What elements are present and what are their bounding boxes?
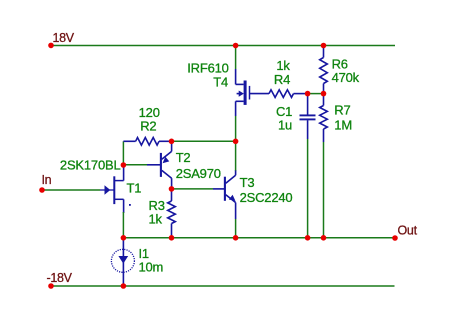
node T1 source/I1 (121, 235, 127, 241)
wire: T1 source down to out row (122, 212, 124, 238)
node R2/T2 emitter (169, 139, 175, 145)
svg-text:1u: 1u (278, 118, 292, 133)
node R7 bottom row (321, 235, 327, 241)
svg-text:-18V: -18V (47, 271, 73, 285)
svg-text:R4: R4 (274, 72, 290, 87)
svg-text:470k: 470k (332, 70, 360, 85)
node R4/C1 (305, 91, 311, 97)
wire: T4 source down to junction (235, 116, 237, 141)
resistor R2 (123, 138, 171, 146)
resistor R4 (269, 90, 308, 98)
svg-text:120: 120 (139, 105, 160, 120)
svg-text:T1: T1 (127, 181, 142, 196)
wire: T3 emitter to out row (235, 219, 237, 238)
stray mark (129, 204, 131, 206)
svg-text:Out: Out (398, 223, 418, 237)
svg-text:1k: 1k (149, 212, 163, 227)
top rail 18V (51, 45, 395, 47)
wire: R2 right to MOSFET source column (172, 140, 236, 142)
node T4 source/T3 collector (233, 139, 239, 145)
resistor R7 (320, 94, 328, 142)
node T3 emitter row (233, 235, 239, 241)
wire: C1 bottom to out row (307, 139, 309, 238)
bottom rail -18V (51, 285, 395, 287)
wire: R7 bottom to out row (323, 142, 325, 238)
node rail/R6 top (321, 43, 327, 49)
svg-text:T4: T4 (213, 75, 228, 90)
wire: junction to T3 collector (235, 141, 237, 170)
transistor T2 (PNP 2SA970) (147, 141, 172, 189)
svg-text:1M: 1M (334, 118, 352, 133)
node A T1 drain/R2/T2 base (121, 162, 127, 168)
wire: node A up to R2 left (122, 141, 124, 165)
wire: In to T1 gate (42, 189, 100, 191)
node In terminal (39, 187, 45, 193)
svg-text:IRF610: IRF610 (187, 60, 228, 75)
transistor T1 (JFET 2SK170BL) (100, 165, 124, 213)
svg-text:2SA970: 2SA970 (176, 166, 221, 181)
node I1 bottom (121, 283, 127, 289)
node T2 collector/R3/T3 base (169, 186, 175, 192)
resistor R6 (320, 46, 328, 94)
node rail/T4 drain (233, 43, 239, 49)
node Out terminal (392, 235, 398, 241)
transistor T4 (MOSFET IRF610) (236, 69, 269, 116)
wire: out row (123, 237, 395, 239)
transistor T3 (NPN 2SC2240) (213, 170, 236, 219)
node R6/R7 (321, 91, 327, 97)
svg-text:R7: R7 (334, 103, 350, 118)
svg-text:R2: R2 (140, 119, 156, 134)
wire: rail down to T4 drain (235, 46, 237, 70)
node 18V rail start (48, 43, 54, 49)
wire: node A to T2 base (123, 164, 147, 166)
svg-text:1k: 1k (276, 58, 290, 73)
wire: T2 collector row to T3 base (172, 188, 214, 190)
current source I1 (111, 238, 134, 286)
capacitor C1 (300, 94, 316, 139)
svg-text:In: In (42, 173, 52, 187)
svg-text:10m: 10m (139, 259, 164, 274)
wire: R4 node to R6 node (308, 93, 324, 95)
svg-text:18V: 18V (53, 31, 75, 45)
node C1 bottom row (305, 235, 311, 241)
node -18V rail start (48, 283, 54, 289)
svg-text:2SK170BL: 2SK170BL (60, 158, 121, 173)
svg-text:T2: T2 (176, 150, 191, 165)
node R3 bottom (169, 235, 175, 241)
resistor R3 (168, 189, 176, 238)
svg-text:2SC2240: 2SC2240 (240, 190, 293, 205)
svg-text:T3: T3 (240, 175, 255, 190)
